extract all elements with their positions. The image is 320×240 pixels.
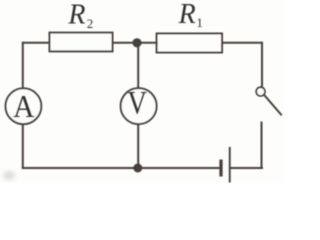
- battery: short thick plate (negative): [219, 160, 222, 177]
- svg-text:V: V: [127, 84, 147, 121]
- node: top junction: [132, 38, 141, 47]
- voltmeter V: [121, 88, 157, 124]
- wire: right rail upper (to switch): [261, 43, 263, 88]
- svg-text:R: R: [178, 0, 196, 30]
- scan smudge artifact: [3, 171, 15, 180]
- node: bottom junction: [133, 164, 142, 173]
- switch: blade: [264, 95, 281, 115]
- battery: long thin plate (positive): [229, 147, 231, 183]
- svg-text:2: 2: [87, 16, 94, 31]
- wire: left rail: [22, 43, 24, 168]
- wire: middle branch (voltmeter branch): [137, 43, 139, 168]
- switch: pivot circle: [256, 87, 265, 96]
- wire: top rail: [23, 42, 262, 44]
- wire: right rail lower (switch to battery): [261, 123, 263, 169]
- ammeter A: [6, 88, 42, 124]
- svg-text:1: 1: [196, 15, 203, 30]
- svg-text:A: A: [13, 89, 34, 124]
- svg-text:R: R: [67, 0, 85, 31]
- resistor R2: [50, 33, 113, 52]
- wire: bottom rail right of battery: [230, 167, 262, 169]
- resistor R1: [157, 34, 222, 53]
- wire: bottom rail left of battery: [23, 167, 221, 169]
